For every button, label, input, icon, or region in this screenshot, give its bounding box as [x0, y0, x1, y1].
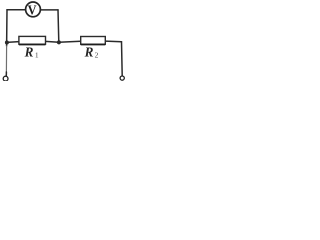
svg-text:R: R	[84, 45, 94, 60]
terminal right open circle	[120, 76, 124, 80]
junction node A (left)	[5, 41, 9, 45]
wire left junction to R1	[7, 41, 19, 44]
svg-text:1: 1	[35, 50, 39, 59]
wire R1 to middle junction	[46, 40, 59, 43]
wire R2 to right corner	[105, 40, 121, 43]
wire left vertical lower	[5, 72, 7, 76]
wire top-left horizontal to voltmeter	[7, 9, 25, 11]
svg-text:V: V	[28, 2, 37, 18]
wire left vertical upper	[6, 10, 8, 46]
resistor R1 box	[19, 36, 46, 44]
junction node B (middle)	[57, 40, 61, 44]
terminal left open circle	[3, 76, 8, 81]
resistor R2 box	[81, 37, 106, 45]
svg-text:R: R	[24, 45, 34, 60]
wire right vertical down	[121, 42, 124, 76]
wire left vertical middle (faint in scan)	[5, 46, 7, 72]
wire vertical from top corner down to middle junction	[57, 10, 60, 42]
voltmeter U1 circle	[26, 2, 41, 17]
resistor R1 box bottom shadow	[19, 44, 46, 46]
wire voltmeter right to top corner	[41, 9, 58, 11]
svg-text:2: 2	[95, 50, 99, 59]
resistor R2 box bottom shadow	[81, 44, 106, 46]
wire middle junction to R2	[59, 41, 81, 42]
